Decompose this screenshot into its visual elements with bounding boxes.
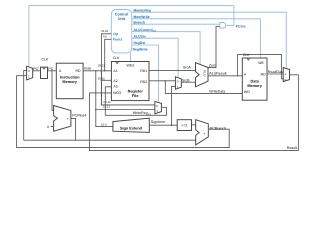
wire MemWrite (control, to data memory WE) [132,19,261,58]
shifter <<2 [177,120,191,131]
svg-text:15:0: 15:0 [101,123,107,126]
gate AND (Branch & Zero) [220,23,226,29]
svg-text:A1: A1 [113,69,117,73]
svg-text:Instr: Instr [84,67,91,71]
svg-text:<<2: <<2 [181,124,187,128]
svg-text:PC′: PC′ [33,67,39,71]
wire ALUResult [208,75,242,77]
adder PCBranch [196,120,209,145]
wire Instr 20:16 tap to A2 and WriteReg mux [101,71,154,105]
svg-text:1: 1 [177,86,179,89]
svg-text:WD: WD [244,90,250,94]
wire Branch (control, to AND gate) [132,23,220,25]
wire RD2 to SrcB mux [149,80,176,82]
svg-text:RegDst: RegDst [134,41,146,45]
wire RegWrite (control, to register file WE3) [130,53,132,62]
wire WriteReg 4:0 back to A3 [105,87,166,116]
data memory [242,53,267,100]
svg-text:Control: Control [115,12,129,16]
svg-text:A: A [59,69,61,73]
svg-text:RD1: RD1 [140,69,147,73]
svg-text:PCBranch: PCBranch [210,127,226,131]
svg-text:1: 1 [285,73,287,76]
svg-text:5:0: 5:0 [103,35,107,38]
svg-text:Sign Extend: Sign Extend [120,126,142,130]
svg-text:File: File [132,94,139,98]
wire ReadData [267,73,283,75]
svg-text:PCPlus4: PCPlus4 [72,114,86,118]
svg-text:Op: Op [113,32,118,36]
wire SrcA [149,70,196,72]
svg-text:Memory: Memory [62,80,77,84]
svg-text:ALUSrc: ALUSrc [134,35,147,39]
register PC [41,67,48,78]
svg-text:MemtoReg: MemtoReg [134,9,151,13]
svg-text:A: A [244,73,246,77]
svg-text:A3: A3 [113,85,117,89]
svg-text:Register: Register [128,89,143,93]
op-amp ALU [196,63,209,87]
svg-text:20:16: 20:16 [98,77,105,80]
svg-text:RD2: RD2 [140,80,147,84]
wire Zero to AND gate [208,27,220,68]
wire PC' [33,70,41,72]
svg-text:Branch: Branch [134,21,146,25]
svg-text:Funct: Funct [113,38,122,42]
wire WriteData tap [165,81,242,94]
svg-text:SrcB: SrcB [182,79,190,83]
svg-text:MemWrite: MemWrite [134,15,150,19]
svg-text:CLK: CLK [113,56,120,60]
svg-text:CLK: CLK [42,58,49,62]
svg-text:ALUResult: ALUResult [209,72,226,76]
wire PC tap to +4 adder [52,71,54,111]
wire RegDst (control, to WriteReg mux select) [132,45,159,102]
svg-text:1: 1 [28,75,30,78]
svg-text:ALUControl2:0: ALUControl2:0 [134,28,156,32]
svg-text:Data: Data [250,79,258,83]
wire ALUControl 2:0 (control, to ALU) [132,32,200,65]
svg-text:ReadData: ReadData [268,70,284,74]
svg-text:0: 0 [285,78,287,81]
svg-text:Instruction: Instruction [60,75,80,79]
mux PC source (0/1) [27,66,33,80]
svg-text:4: 4 [47,125,49,129]
wire shifted immediate [192,124,197,126]
svg-text:WD3: WD3 [113,91,121,95]
wire Funct input 5:0 [105,39,112,71]
svg-text:WriteData: WriteData [209,89,225,93]
wire ALUSrc (control, to SrcB mux select) [132,38,178,77]
wire Op input 31:26 [101,34,111,105]
svg-text:RD: RD [75,69,80,73]
sign extend [113,118,149,132]
mux SrcB (ALUSrc) [175,77,181,89]
wire ALUResult bypass to result mux input 0 [238,54,284,78]
svg-text:RegWrite: RegWrite [133,48,148,52]
node 4 constant [51,125,54,127]
wire SrcB [181,81,195,83]
svg-text:Result: Result [287,146,297,150]
mux WriteReg (RegDst) [155,101,162,113]
svg-text:WriteReg4:0: WriteReg4:0 [133,111,151,115]
svg-text:RD: RD [261,73,266,77]
wire PCPlus4 output [24,118,76,140]
svg-text:WE: WE [258,61,264,65]
adder PCPlus4 (+4) [54,106,71,132]
wire MemtoReg (control, to result mux select) [132,12,286,67]
svg-text:+: + [203,132,205,136]
svg-text:SrcA: SrcA [183,66,191,70]
wire PC [48,70,57,72]
svg-text:0: 0 [156,105,158,108]
wire Funct junction dot [104,70,106,72]
svg-text:A2: A2 [113,79,117,83]
mux Result (MemtoReg) [283,68,289,82]
svg-text:25:21: 25:21 [98,64,105,67]
wire PCSrc routing (top, from AND gate to PC mux select) [29,6,234,67]
svg-text:15:11: 15:11 [103,105,110,108]
wire SignImm [149,124,177,126]
svg-text:WE3: WE3 [127,64,135,68]
svg-text:Unit: Unit [118,17,126,21]
svg-text:1: 1 [156,110,158,113]
svg-text:SignImm: SignImm [151,120,165,124]
wire PCPlus4 feedback to mux0 [24,71,27,141]
svg-text:0: 0 [177,80,179,83]
svg-text:Zero: Zero [209,63,217,67]
svg-text:PCSrc: PCSrc [236,25,246,29]
wire SignImm riser to SrcB mux input 1 [172,86,176,125]
svg-text:CLK: CLK [243,53,250,57]
control unit U_ctrl [111,10,132,53]
wire Instr 15:11 and 15:0 tap [96,71,113,127]
svg-text:+: + [67,117,69,121]
wire Result feedback to WD3 [89,75,298,151]
instruction memory [56,63,83,98]
svg-text:ALU: ALU [203,70,207,77]
svg-text:20:16: 20:16 [103,100,110,103]
register file [111,56,149,100]
wire PCBranch feedback to mux1 [17,76,230,148]
svg-text:0: 0 [28,69,30,72]
svg-text:31:26: 31:26 [101,29,108,32]
svg-text:Memory: Memory [247,84,262,88]
wire Instr [83,70,111,72]
